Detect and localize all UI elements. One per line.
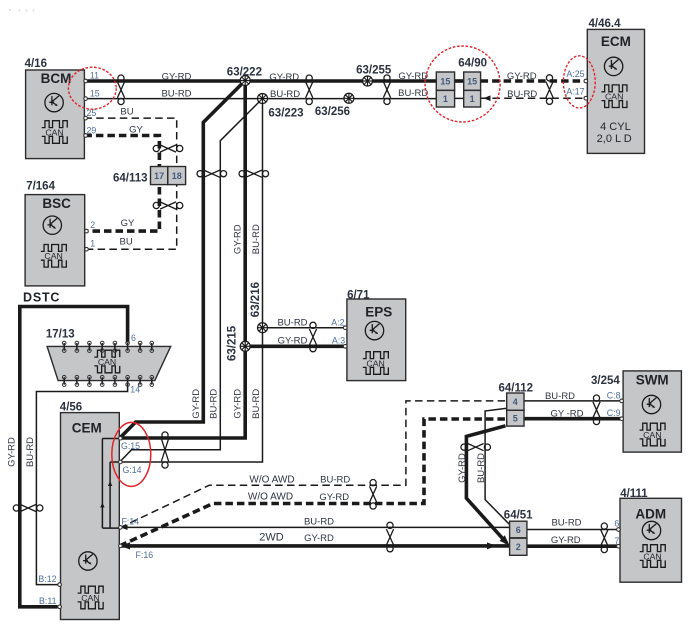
- arrow on 2WD wire near 64/51: [487, 542, 496, 549]
- wire BU-RD thin 64/112:4 down to 64/51:6: [485, 408, 510, 524]
- connector 64/113 pin 17 box: [151, 167, 168, 185]
- pin ADM 7: [617, 544, 621, 548]
- splice 63/255: [363, 76, 373, 86]
- svg-text:17/13: 17/13: [46, 329, 75, 341]
- arrow into CEM F:14: [121, 525, 128, 530]
- svg-text:BU-RD: BU-RD: [25, 437, 36, 467]
- pin ECM A:25: [584, 79, 588, 83]
- svg-text:BU: BU: [120, 107, 133, 118]
- twist symbol on left vertical pair: [197, 170, 227, 177]
- wire GY-RD dashed W/O AWD CEM F:16 to 64/112:5: [120, 419, 507, 546]
- wire BU-RD thin 17/13:14 loop to CEM B:12: [36, 384, 127, 584]
- K icon ECM: [604, 57, 622, 75]
- svg-text:1: 1: [443, 94, 448, 104]
- svg-text:GY-RD: GY-RD: [278, 336, 308, 347]
- svg-text:W/O AWD: W/O AWD: [248, 492, 293, 503]
- svg-text:63/215: 63/215: [226, 325, 238, 361]
- svg-text:15: 15: [440, 77, 450, 87]
- svg-text:64/112: 64/112: [499, 383, 534, 395]
- CEM internal bus G:15 branch: [102, 439, 119, 529]
- splice 63/223: [258, 94, 268, 104]
- svg-text:4/46.4: 4/46.4: [589, 18, 622, 30]
- svg-text:6: 6: [131, 333, 136, 343]
- svg-text:63/255: 63/255: [356, 65, 392, 77]
- connector 64/90 right half pin 1 box: [464, 90, 481, 107]
- svg-text:GY -RD: GY -RD: [550, 409, 583, 420]
- svg-text:DSTC: DSTC: [23, 291, 60, 305]
- CAN icon BCM: [42, 121, 68, 144]
- wire GY-RD 63/222 straight down via 63/215 to CEM G:15 (thick): [120, 81, 246, 439]
- op-amp-style K icon BCM: [45, 93, 63, 111]
- K icon CEM: [79, 552, 97, 570]
- BSC 7/164 box: [25, 195, 85, 286]
- svg-text:BU-RD: BU-RD: [209, 389, 220, 419]
- connector 64/112 pin 4 box: [507, 393, 524, 410]
- twist symbol near SWM: [593, 395, 600, 425]
- twist symbol on W/O AWD pair: [370, 480, 377, 510]
- svg-text:4/56: 4/56: [60, 402, 82, 414]
- red highlight ellipse ECM pins: [563, 56, 595, 108]
- EPS 6/71 box: [347, 299, 406, 381]
- svg-text:29: 29: [87, 126, 97, 136]
- wire stub GY-RD between 64/90 halves: [454, 79, 464, 83]
- svg-text:2,0 L D: 2,0 L D: [597, 133, 632, 145]
- svg-text:7/164: 7/164: [26, 181, 55, 193]
- pin ECM A:17: [584, 96, 588, 100]
- svg-text:BU-RD: BU-RD: [507, 89, 537, 100]
- twist symbol before ECM: [546, 75, 553, 105]
- svg-text:BU-RD: BU-RD: [161, 89, 191, 100]
- pin CEM G:15: [119, 436, 123, 440]
- connector 64/90 right half pin 15 box: [464, 72, 481, 90]
- arrow on BU-RD dashed at 64/90: [483, 95, 490, 101]
- twist symbol below 64/113: [153, 202, 183, 209]
- svg-text:18: 18: [172, 171, 182, 181]
- ADM 4/111 box: [620, 498, 682, 582]
- svg-text:ECM: ECM: [601, 34, 631, 49]
- svg-text:GY-RD: GY-RD: [398, 71, 428, 82]
- connector 64/90 left half pin 1 box: [436, 90, 454, 107]
- svg-text:GY-RD: GY-RD: [233, 224, 244, 254]
- svg-text:11: 11: [90, 71, 99, 81]
- CEM internal bus G:14 branch: [110, 462, 119, 528]
- wire BU dashed BCM:25 to BSC:1 via 64/113:18: [84, 118, 176, 249]
- wire BU-RD 63/223 down-left to CEM G:14 (thin): [120, 99, 263, 463]
- svg-text:1: 1: [90, 239, 95, 249]
- CAN icon CEM: [78, 586, 104, 609]
- pin CEM B:12: [58, 583, 62, 587]
- wire BU-RD dashed W/O AWD CEM F:14 to 64/112:4: [120, 401, 507, 528]
- svg-text:63/256: 63/256: [315, 106, 350, 118]
- svg-text:63/216: 63/216: [250, 282, 262, 317]
- wire BU-RD 64/51:6 to ADM 6 (thin): [527, 529, 619, 531]
- connector 64/112 pin 5 box: [507, 410, 524, 426]
- CEM 4/56 box: [61, 413, 120, 620]
- K icon SWM: [642, 395, 660, 413]
- svg-text:17: 17: [154, 171, 164, 181]
- wire BU-RD 63/223 straight down via 63/216 to CEM G:14 (thin): [120, 99, 263, 463]
- svg-text:GY-RD: GY-RD: [319, 492, 349, 503]
- pin BSC 1: [85, 247, 89, 251]
- red highlight ellipse CEM pins: [112, 422, 151, 486]
- pin EPS A:2: [343, 326, 347, 330]
- svg-text:SWM: SWM: [636, 373, 669, 388]
- svg-text:F:14: F:14: [122, 516, 140, 526]
- splice 63/215: [240, 341, 250, 351]
- pin BCM 25: [84, 116, 88, 120]
- svg-text:A:25: A:25: [566, 69, 584, 79]
- splice 63/222: [240, 76, 250, 86]
- CEM internal arrow up 1: [100, 503, 104, 508]
- svg-text:4 CYL: 4 CYL: [600, 121, 631, 133]
- svg-text:GY-RD: GY-RD: [269, 72, 299, 83]
- svg-text:64/113: 64/113: [113, 173, 148, 185]
- wire GY-RD solid 2WD CEM F:16 to 64/51:2: [120, 544, 510, 548]
- twist symbol above 64/113: [153, 145, 183, 152]
- pin CEM G:14: [119, 460, 123, 464]
- svg-text:GY-RD: GY-RD: [304, 533, 334, 544]
- twist symbol on right vertical pair: [239, 170, 269, 177]
- arrow into 64/51:2: [500, 535, 510, 545]
- twist symbol on DSTC loop: [13, 504, 43, 511]
- svg-text:2: 2: [516, 542, 521, 552]
- wire GY-RD BCM:11 to 64/90 (thick solid bus): [84, 79, 436, 83]
- svg-text:7: 7: [614, 536, 619, 546]
- svg-text:6/71: 6/71: [347, 290, 370, 302]
- twist symbol on 2WD pair: [386, 522, 393, 552]
- ECM 4/46.4 box: [587, 29, 644, 153]
- svg-text:A:2: A:2: [331, 318, 344, 328]
- svg-text:CEM: CEM: [72, 421, 102, 436]
- SWM 3/254 box: [623, 371, 681, 452]
- scan dots top left: [9, 9, 35, 12]
- svg-text:BU-RD: BU-RD: [270, 89, 300, 100]
- svg-text:64/90: 64/90: [458, 58, 487, 70]
- svg-text:BU-RD: BU-RD: [551, 518, 581, 529]
- svg-text:BU-RD: BU-RD: [545, 391, 575, 402]
- splice 63/216: [258, 323, 268, 333]
- CAN icon BSC: [41, 245, 67, 268]
- twist symbol on 64/112-64/51 pair: [461, 444, 491, 451]
- pins 17/13 top row: [62, 341, 153, 352]
- svg-text:BU-RD: BU-RD: [320, 475, 350, 486]
- pin CEM F:14: [119, 526, 123, 530]
- connector 64/90 left half pin 15 box: [436, 72, 454, 90]
- svg-text:63/222: 63/222: [227, 67, 262, 79]
- svg-text:64/51: 64/51: [504, 510, 533, 522]
- twist symbol near ADM: [601, 523, 608, 553]
- svg-text:6: 6: [516, 525, 521, 535]
- twist symbol after 63/255: [383, 75, 390, 105]
- svg-text:C:9: C:9: [607, 408, 621, 418]
- svg-text:EPS: EPS: [365, 305, 392, 320]
- pin CEM F:16: [119, 544, 123, 548]
- svg-text:1: 1: [470, 94, 475, 104]
- CAN icon ADM: [640, 545, 666, 568]
- svg-text:GY-RD: GY-RD: [457, 453, 468, 483]
- connector 17/13 (DLC) trapezoid: [47, 346, 171, 380]
- twist symbol near EPS: [309, 322, 316, 352]
- svg-text:2: 2: [90, 220, 95, 230]
- svg-text:BU-RD: BU-RD: [251, 389, 262, 419]
- svg-text:BU: BU: [119, 237, 132, 248]
- arrow into CEM F:16: [121, 542, 130, 549]
- CAN icon SWM: [640, 423, 666, 446]
- connector 64/51 pin 2 box: [510, 538, 527, 555]
- pin BCM 29: [84, 134, 88, 138]
- wire stub BU-RD between 64/90 halves: [454, 97, 464, 99]
- svg-text:GY: GY: [129, 125, 143, 136]
- svg-text:BCM: BCM: [41, 71, 72, 86]
- wire GY dashed BCM:29 to BSC:2 via 64/113:17: [84, 136, 159, 232]
- wire BU-RD BCM:15 to 64/90 (thin solid bus): [84, 98, 436, 100]
- twist symbol after 63/222: [306, 75, 313, 105]
- svg-text:GY-RD: GY-RD: [162, 72, 192, 83]
- wire BU-RD 64/112:4 to SWM C:8 (thin): [524, 400, 622, 402]
- CAN icon 17/13: [94, 350, 120, 373]
- pin SWM C:8: [620, 399, 624, 403]
- pin EPS A:3: [343, 345, 347, 349]
- svg-text:G:15: G:15: [121, 441, 140, 451]
- svg-text:4: 4: [513, 397, 518, 407]
- wire GY-RD 63/215 to EPS A:3 (thick): [245, 344, 347, 348]
- wire GY-RD dashed 64/90 to ECM A:25: [481, 79, 585, 83]
- red highlight ellipse 64/90: [425, 46, 500, 122]
- pin BSC 2: [85, 229, 89, 233]
- svg-text:G:14: G:14: [123, 465, 142, 475]
- wire BU-RD dashed 64/90 to ECM A:17: [481, 97, 585, 99]
- svg-text:GY-RD: GY-RD: [507, 71, 537, 82]
- svg-text:BU-RD: BU-RD: [476, 453, 487, 483]
- svg-text:W/O AWD: W/O AWD: [249, 475, 294, 486]
- svg-text:GY: GY: [121, 218, 135, 229]
- svg-text:B:12: B:12: [38, 574, 56, 584]
- CAN icon EPS: [363, 352, 389, 375]
- pin SWM C:9: [620, 417, 624, 421]
- svg-text:BU-RD: BU-RD: [398, 88, 428, 99]
- wire BU-RD solid CEM F:14 to 64/51:6: [120, 526, 510, 528]
- BCM 4/16 box: [26, 70, 85, 159]
- wire GY-RD 64/112:5 to SWM C:9 (thick): [524, 417, 622, 421]
- wire GY-RD 64/51:2 to ADM 7 (thick): [527, 544, 619, 548]
- svg-text:BSC: BSC: [42, 196, 71, 211]
- svg-text:15: 15: [467, 77, 477, 87]
- svg-text:6: 6: [614, 519, 619, 529]
- svg-text:GY-RD: GY-RD: [191, 389, 202, 419]
- svg-text:F:16: F:16: [136, 550, 154, 560]
- wire BU-RD 63/216 to EPS A:2 (thin): [263, 327, 347, 329]
- connector 64/51 pin 6 box: [510, 521, 527, 538]
- wire GY-RD thick 17/13:6 loop to CEM B:11: [20, 307, 128, 607]
- svg-text:BU-RD: BU-RD: [304, 517, 334, 528]
- connector 64/113 pin 18 box: [168, 167, 186, 185]
- svg-text:BU-RD: BU-RD: [251, 224, 262, 254]
- pin ADM 6: [617, 528, 621, 532]
- svg-text:15: 15: [90, 89, 100, 99]
- pins 17/13 bottom row: [62, 375, 153, 386]
- svg-text:2WD: 2WD: [259, 532, 284, 544]
- svg-text:A:17: A:17: [566, 87, 584, 97]
- svg-text:C:8: C:8: [607, 391, 621, 401]
- CAN icon ECM: [601, 85, 627, 108]
- pin BCM 15: [84, 97, 88, 101]
- svg-text:5: 5: [513, 414, 518, 424]
- twist symbol near BCM pins: [117, 75, 124, 105]
- K icon EPS: [365, 321, 383, 339]
- svg-text:GY-RD: GY-RD: [7, 437, 18, 467]
- svg-text:B:11: B:11: [39, 596, 57, 606]
- wire GY-RD 63/222 down-left to CEM G:15 (thick): [120, 81, 246, 439]
- splice 63/256: [344, 93, 354, 103]
- svg-text:4/111: 4/111: [620, 488, 648, 500]
- svg-text:63/223: 63/223: [268, 108, 303, 120]
- svg-text:14: 14: [130, 385, 140, 395]
- svg-text:ADM: ADM: [635, 507, 666, 522]
- svg-text:GY-RD: GY-RD: [551, 535, 581, 546]
- K icon BSC: [43, 216, 61, 234]
- svg-text:3/254: 3/254: [591, 375, 620, 387]
- twist symbol near CEM G pins: [161, 432, 168, 468]
- CEM internal arrow up 2: [108, 481, 112, 486]
- pin BCM 11: [84, 79, 88, 83]
- pin CEM B:11: [58, 605, 62, 609]
- K icon ADM: [642, 521, 660, 539]
- svg-text:GY-RD: GY-RD: [233, 389, 244, 419]
- red highlight ellipse BCM pins: [68, 67, 116, 109]
- wire GY-RD thick 64/112:5 down to 64/51:2: [466, 426, 506, 543]
- svg-text:A:3: A:3: [332, 336, 345, 346]
- svg-text:4/16: 4/16: [25, 58, 47, 70]
- svg-text:BU-RD: BU-RD: [277, 318, 307, 329]
